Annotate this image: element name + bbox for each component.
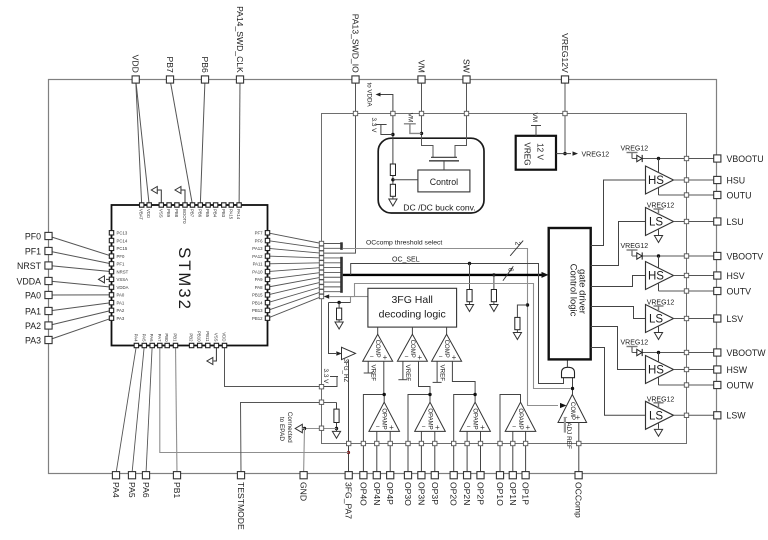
svg-text:PB13: PB13 <box>252 308 263 313</box>
svg-text:VSS: VSS <box>213 333 218 342</box>
svg-text:3.3 V: 3.3 V <box>370 118 377 134</box>
svg-text:VM: VM <box>406 113 413 123</box>
svg-text:−: − <box>370 354 374 361</box>
svg-text:OUTW: OUTW <box>727 380 755 390</box>
svg-text:OP1O: OP1O <box>495 482 505 506</box>
svg-text:OP3O: OP3O <box>403 482 413 506</box>
svg-text:PB1: PB1 <box>172 482 182 498</box>
svg-text:PF0: PF0 <box>117 254 125 259</box>
svg-text:OPAMP: OPAMP <box>472 408 478 429</box>
svg-text:PA6: PA6 <box>149 334 154 342</box>
svg-text:PA14: PA14 <box>236 209 241 220</box>
svg-text:OCcomp threshold select: OCcomp threshold select <box>366 240 442 247</box>
svg-text:6: 6 <box>506 268 513 272</box>
svg-text:+: + <box>417 353 422 362</box>
svg-text:PB9: PB9 <box>166 209 171 218</box>
svg-text:PB6: PB6 <box>197 209 202 218</box>
svg-text:PA8: PA8 <box>255 285 263 290</box>
svg-text:to VDDA: to VDDA <box>365 83 372 108</box>
svg-text:LS: LS <box>649 411 663 423</box>
svg-text:LS: LS <box>649 314 663 326</box>
svg-text:PA0: PA0 <box>25 290 41 300</box>
svg-text:VBOOTV: VBOOTV <box>727 251 764 261</box>
svg-text:PB10: PB10 <box>197 331 202 342</box>
svg-text:PA13_SWD_IO: PA13_SWD_IO <box>351 14 361 73</box>
svg-text:OC_SEL: OC_SEL <box>392 256 420 263</box>
svg-text:HS: HS <box>648 365 664 377</box>
svg-text:LS: LS <box>649 217 663 229</box>
svg-text:PB5: PB5 <box>205 209 210 218</box>
svg-text:OP4N: OP4N <box>372 482 382 505</box>
svg-text:OPAMP: OPAMP <box>517 408 523 429</box>
svg-text:ADJ REF: ADJ REF <box>565 422 572 449</box>
svg-text:3.3 V: 3.3 V <box>322 369 329 385</box>
svg-text:HSV: HSV <box>727 271 745 281</box>
svg-text:PB2: PB2 <box>189 333 194 342</box>
svg-text:12 V: 12 V <box>536 143 545 160</box>
svg-text:VREG12: VREG12 <box>621 243 649 250</box>
svg-text:OCComp: OCComp <box>574 482 584 518</box>
svg-text:HSU: HSU <box>727 175 746 185</box>
svg-text:OP1N: OP1N <box>508 482 518 505</box>
svg-text:−: − <box>376 424 380 431</box>
svg-text:VREF: VREF <box>370 365 377 382</box>
svg-text:−: − <box>421 424 425 431</box>
svg-text:PA5: PA5 <box>127 482 137 498</box>
svg-text:+: + <box>389 423 394 432</box>
svg-text:PA1: PA1 <box>25 306 41 316</box>
svg-text:VBOOTW: VBOOTW <box>727 348 767 358</box>
svg-text:3FG Hall: 3FG Hall <box>391 294 432 306</box>
svg-text:BOOT0: BOOT0 <box>182 209 187 224</box>
svg-text:LSV: LSV <box>727 314 744 324</box>
svg-text:VDD: VDD <box>146 209 151 218</box>
svg-text:−: − <box>439 354 443 361</box>
svg-text:OUTU: OUTU <box>727 190 752 200</box>
svg-text:VREG12: VREG12 <box>621 146 649 153</box>
svg-text:PA1: PA1 <box>117 300 125 305</box>
svg-text:TESTMODE: TESTMODE <box>236 482 246 530</box>
svg-text:PA10: PA10 <box>252 269 263 274</box>
svg-text:PA4: PA4 <box>111 482 121 498</box>
svg-text:STM32: STM32 <box>175 247 194 311</box>
svg-text:HS: HS <box>648 175 664 187</box>
svg-text:LSU: LSU <box>727 217 744 227</box>
svg-text:COMP: COMP <box>443 340 449 358</box>
svg-text:OUTV: OUTV <box>727 286 752 296</box>
svg-text:PA3: PA3 <box>117 316 125 321</box>
svg-text:OP4P: OP4P <box>385 482 395 505</box>
svg-text:PB8: PB8 <box>174 209 179 218</box>
svg-text:OP4O: OP4O <box>358 482 368 506</box>
svg-text:VM: VM <box>531 113 538 123</box>
svg-text:PB1: PB1 <box>173 333 178 342</box>
svg-text:+: + <box>383 353 388 362</box>
svg-text:+: + <box>525 423 530 432</box>
svg-text:Control: Control <box>430 177 458 187</box>
svg-text:PA15: PA15 <box>228 209 233 220</box>
svg-text:NRST: NRST <box>17 261 42 271</box>
svg-text:PA9: PA9 <box>255 277 263 282</box>
svg-text:gate driver: gate driver <box>577 269 588 314</box>
svg-text:VREG12: VREG12 <box>621 340 649 347</box>
svg-text:to EPAD: to EPAD <box>278 417 285 441</box>
svg-text:VDD: VDD <box>222 332 227 341</box>
svg-text:GND: GND <box>299 482 309 501</box>
svg-text:HSW: HSW <box>727 365 748 375</box>
svg-text:VSS: VSS <box>158 209 163 218</box>
svg-text:+: + <box>452 353 457 362</box>
svg-text:Connected: Connected <box>286 412 293 443</box>
svg-text:VDD: VDD <box>131 55 141 73</box>
svg-text:PA2: PA2 <box>117 308 125 313</box>
svg-text:OP1P: OP1P <box>521 482 531 505</box>
svg-text:COMP: COMP <box>569 402 575 420</box>
svg-text:VREG12: VREG12 <box>582 151 610 158</box>
svg-text:PA7: PA7 <box>157 334 162 342</box>
svg-text:−: − <box>404 354 408 361</box>
svg-text:PB12: PB12 <box>252 316 263 321</box>
svg-text:LSW: LSW <box>727 411 747 421</box>
svg-text:PB0: PB0 <box>164 333 169 342</box>
svg-text:PA12: PA12 <box>252 254 263 259</box>
svg-text:OP3P: OP3P <box>430 482 440 505</box>
svg-text:PA13: PA13 <box>252 246 263 251</box>
svg-text:PA11: PA11 <box>253 262 263 267</box>
svg-text:PF1: PF1 <box>117 262 125 267</box>
svg-text:PA5: PA5 <box>141 334 146 342</box>
svg-text:PC13: PC13 <box>117 231 128 236</box>
svg-text:−: − <box>512 424 516 431</box>
svg-text:PA4: PA4 <box>133 334 138 342</box>
svg-text:SW: SW <box>462 59 472 74</box>
svg-text:VSSA: VSSA <box>117 277 129 282</box>
svg-text:decoding logic: decoding logic <box>379 309 446 321</box>
svg-text:COMP: COMP <box>409 340 415 358</box>
svg-text:PF6: PF6 <box>255 238 263 243</box>
svg-text:PA0: PA0 <box>117 293 125 298</box>
svg-text:OP3N: OP3N <box>416 482 426 505</box>
svg-text:PC14: PC14 <box>117 238 128 243</box>
svg-text:PB14: PB14 <box>252 300 263 305</box>
svg-text:PA3: PA3 <box>25 335 41 345</box>
svg-text:PC15: PC15 <box>117 246 128 251</box>
svg-text:OPAMP: OPAMP <box>381 408 387 429</box>
svg-text:HS: HS <box>648 271 664 283</box>
svg-text:OP2P: OP2P <box>476 482 486 505</box>
svg-text:PB3: PB3 <box>221 209 226 218</box>
svg-text:PF1: PF1 <box>25 246 41 256</box>
svg-text:PB4: PB4 <box>213 209 218 218</box>
svg-text:VREG12V: VREG12V <box>560 33 570 73</box>
svg-text:NRST: NRST <box>117 269 129 274</box>
svg-text:VREF: VREF <box>438 365 445 382</box>
svg-text:PB11: PB11 <box>205 331 210 342</box>
svg-text:VDDA: VDDA <box>17 276 42 286</box>
svg-text:VREF: VREF <box>404 365 411 382</box>
svg-text:PA14_SWD_CLK: PA14_SWD_CLK <box>235 6 245 73</box>
svg-text:PA6: PA6 <box>141 482 151 498</box>
svg-text:OPAMP: OPAMP <box>427 408 433 429</box>
svg-text:VBOOTU: VBOOTU <box>727 154 764 164</box>
svg-text:PB6: PB6 <box>200 57 210 73</box>
svg-text:PB7: PB7 <box>165 57 175 73</box>
svg-text:PF7: PF7 <box>255 231 263 236</box>
svg-text:COMP: COMP <box>374 340 380 358</box>
svg-text:+: + <box>480 423 485 432</box>
svg-text:PF0: PF0 <box>25 231 41 241</box>
svg-text:3FG_PA7: 3FG_PA7 <box>344 482 354 519</box>
svg-text:VDDA: VDDA <box>117 285 129 290</box>
svg-text:PB7: PB7 <box>190 209 195 218</box>
svg-text:VBAT: VBAT <box>139 209 144 220</box>
svg-text:PB15: PB15 <box>252 293 263 298</box>
svg-text:OP2N: OP2N <box>462 482 472 505</box>
svg-text:+: + <box>575 413 580 422</box>
svg-text:DC /DC buck conv.: DC /DC buck conv. <box>403 202 475 212</box>
svg-text:VREG: VREG <box>523 142 532 165</box>
svg-text:+: + <box>435 423 440 432</box>
svg-text:2: 2 <box>514 242 521 246</box>
svg-text:VM: VM <box>417 60 427 73</box>
svg-text:PA2: PA2 <box>25 321 41 331</box>
svg-text:−: − <box>467 424 471 431</box>
svg-text:OP2O: OP2O <box>449 482 459 506</box>
